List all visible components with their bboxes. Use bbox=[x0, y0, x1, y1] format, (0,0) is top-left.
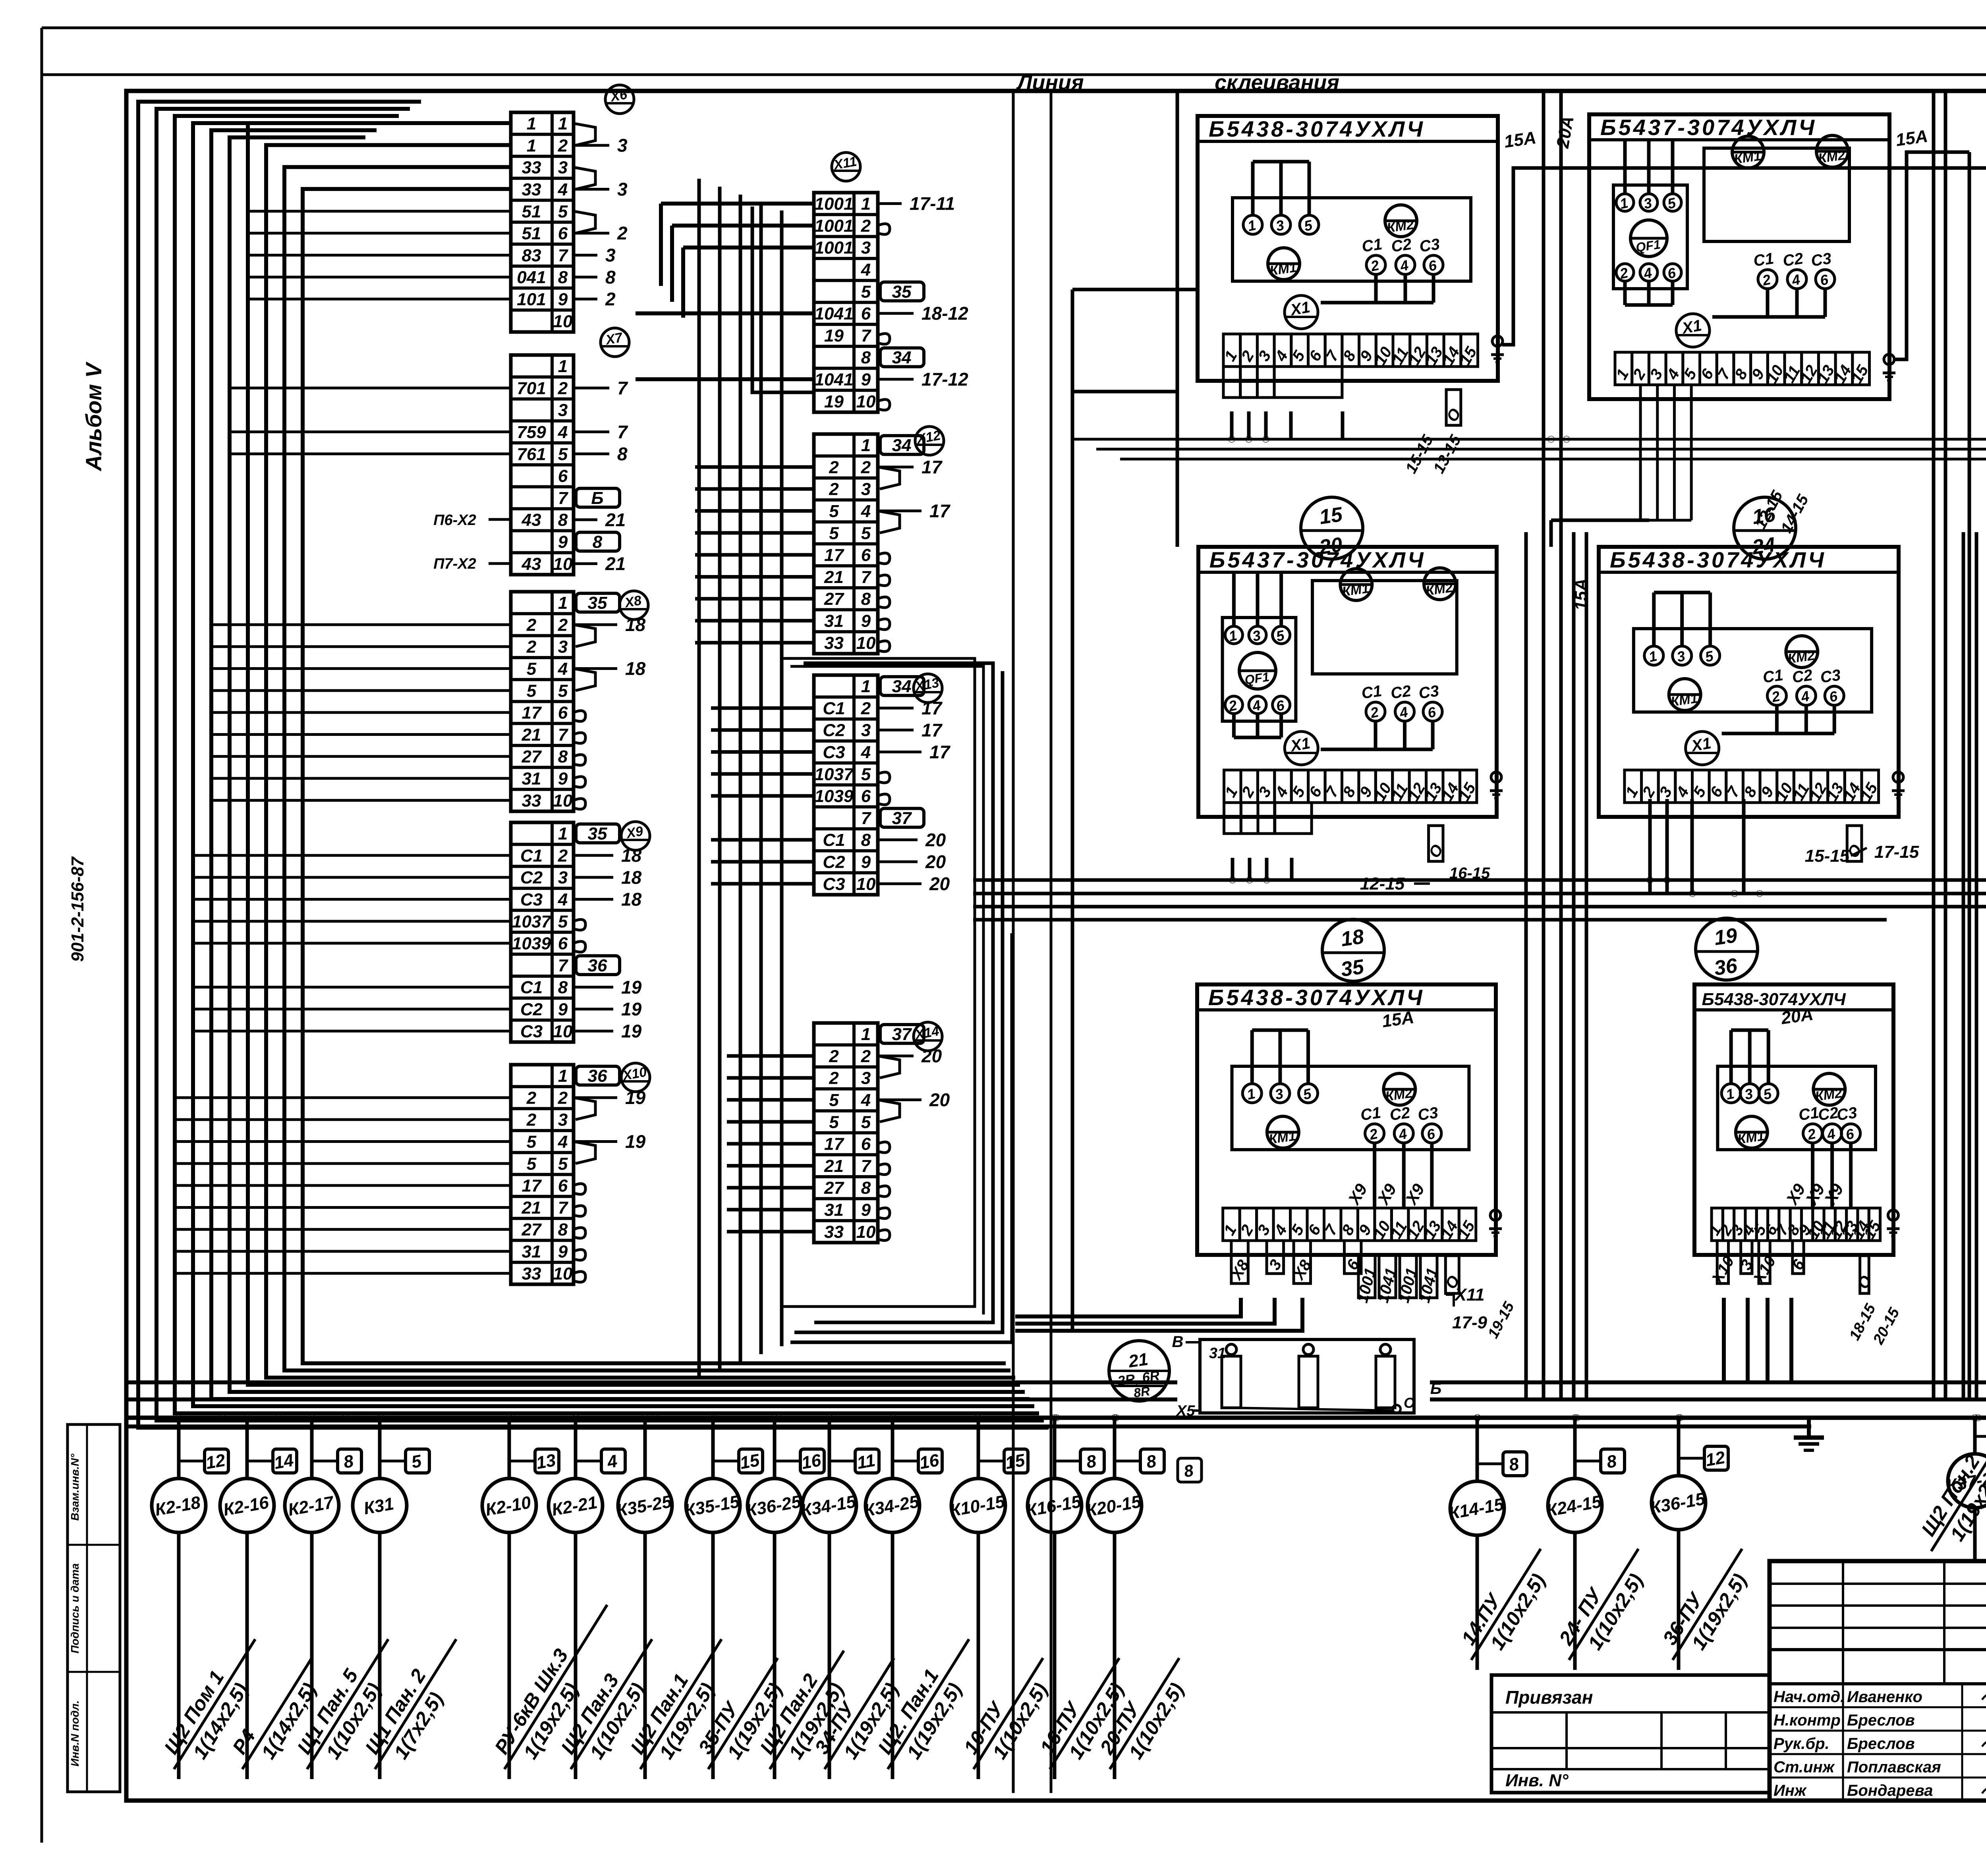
svg-text:5: 5 bbox=[829, 1112, 839, 1132]
wires into X7 bbox=[230, 386, 511, 389]
Х9 row 7 dest box 36 bbox=[576, 956, 620, 975]
Х6 bracket rows 5-6 bbox=[574, 211, 595, 233]
svg-text:3: 3 bbox=[558, 401, 568, 420]
svg-text:17-12: 17-12 bbox=[922, 369, 968, 390]
Х13 row 8 stub wire to 20 bbox=[878, 838, 918, 841]
svg-text:17: 17 bbox=[522, 1176, 542, 1196]
svg-text:5: 5 bbox=[558, 681, 568, 701]
svg-text:2: 2 bbox=[861, 699, 871, 718]
Х8 row 1 dest box 35 bbox=[576, 593, 620, 612]
cable line from bus to К2-21 bbox=[574, 1418, 578, 1478]
cable destination label Щ2 Пон.2 bbox=[1911, 1420, 1986, 1564]
cable circle К35-15 bbox=[686, 1478, 740, 1532]
svg-text:15: 15 bbox=[738, 1450, 761, 1473]
cable destination label Щ2 Пан.3 bbox=[550, 1626, 673, 1782]
svg-text:21: 21 bbox=[1127, 1349, 1149, 1371]
pin circle 5 bbox=[1759, 1084, 1778, 1103]
terminal block Х6 bbox=[511, 112, 574, 332]
svg-text:Р4: Р4 bbox=[228, 1725, 260, 1758]
svg-text:34: 34 bbox=[892, 677, 912, 696]
connector id circle Х6 bbox=[605, 85, 634, 114]
svg-text:С1: С1 bbox=[823, 699, 845, 718]
pin circle 2 bbox=[1616, 264, 1634, 281]
contactor coil КМ1 bbox=[1736, 1116, 1768, 1148]
connector id circle Х12 bbox=[915, 427, 944, 455]
svg-text:Нач.отд.: Нач.отд. bbox=[1773, 1688, 1845, 1706]
pin circle 4 bbox=[1394, 1124, 1413, 1143]
cable line from bus to К16-15 bbox=[1053, 1418, 1057, 1478]
contactor panel Б2 outline bbox=[1589, 114, 1889, 399]
pin circle 6 bbox=[1841, 1124, 1860, 1143]
route tag 16 of К36-25 bbox=[800, 1449, 824, 1473]
drop wires panel7 to left loop bus bbox=[1015, 1298, 1241, 1316]
svg-text:33: 33 bbox=[824, 633, 844, 653]
cable destination label 35-ПУ bbox=[688, 1645, 799, 1783]
terminal strip X1 of Б1 bbox=[1223, 334, 1240, 367]
vertical wire to box column 1 bbox=[1176, 91, 1179, 547]
svg-text:4: 4 bbox=[861, 743, 871, 762]
circuit breaker block of Б2 bbox=[1613, 185, 1687, 289]
Х12 row 10 hook terminal bbox=[878, 641, 890, 652]
terminal strip X1 of row3Б7 bbox=[1223, 1208, 1240, 1241]
svg-text:8: 8 bbox=[558, 747, 568, 766]
svg-text:Бреслов: Бреслов bbox=[1847, 1735, 1915, 1752]
svg-text:Х9: Х9 bbox=[1820, 1180, 1847, 1208]
svg-text:5: 5 bbox=[861, 764, 871, 784]
Х9 row 10 stub wire to 19 bbox=[574, 1030, 613, 1033]
cable line from bus to К37-25 bbox=[1973, 1418, 1977, 1454]
svg-text:1: 1 bbox=[861, 677, 871, 696]
svg-text:3: 3 bbox=[558, 868, 568, 888]
svg-text:4: 4 bbox=[605, 1451, 619, 1472]
contactor panel Б1 outline bbox=[1198, 116, 1498, 381]
cable circle К2-16 bbox=[220, 1478, 274, 1532]
svg-text:33: 33 bbox=[522, 791, 541, 811]
svg-text:4: 4 bbox=[558, 180, 568, 199]
svg-text:2: 2 bbox=[558, 615, 568, 635]
svg-text:4: 4 bbox=[558, 890, 568, 909]
route tag 8 of К20-15 bbox=[1140, 1449, 1164, 1473]
resistor R3 bbox=[1376, 1356, 1395, 1408]
svg-text:5: 5 bbox=[558, 1154, 568, 1173]
svg-text:7: 7 bbox=[617, 378, 628, 398]
Х14 row 10 hook terminal bbox=[878, 1230, 890, 1241]
drop wires panel4 to inter-row bus2 bbox=[1231, 858, 1234, 880]
svg-text:1001: 1001 bbox=[815, 216, 854, 235]
svg-text:Х9: Х9 bbox=[1344, 1180, 1371, 1208]
svg-text:Инж: Инж bbox=[1773, 1782, 1807, 1799]
Х11 row 5 dest box 35 bbox=[880, 282, 924, 301]
pin circle 5 bbox=[1273, 626, 1290, 644]
terminal strip X1 of Б4 bbox=[1224, 770, 1241, 803]
resistor assembly box bbox=[1200, 1339, 1414, 1413]
Х12 row 7 hook terminal bbox=[878, 575, 890, 586]
route tag 8 of К2-17 bbox=[338, 1449, 361, 1473]
svg-text:О: О bbox=[1854, 1273, 1876, 1292]
svg-text:1: 1 bbox=[527, 114, 536, 133]
contactor panel Б4 outline bbox=[1198, 547, 1497, 817]
svg-text:18-12: 18-12 bbox=[922, 303, 968, 324]
cable circle К36-15 bbox=[1652, 1476, 1706, 1530]
svg-text:С3: С3 bbox=[1835, 1104, 1858, 1124]
cable circle К31 bbox=[353, 1478, 407, 1532]
svg-text:1039: 1039 bbox=[815, 787, 854, 806]
Х10 row 6 hook terminal bbox=[574, 1184, 585, 1195]
wires into Х12 bbox=[695, 465, 814, 469]
svg-text:4: 4 bbox=[558, 423, 568, 442]
wires QF bottom pins down bbox=[1623, 281, 1627, 305]
svg-text:5: 5 bbox=[861, 1112, 871, 1132]
svg-text:5: 5 bbox=[410, 1451, 423, 1472]
svg-text:4: 4 bbox=[558, 1132, 568, 1152]
pin circle 1 bbox=[1721, 1084, 1741, 1103]
svg-text:10: 10 bbox=[553, 1022, 573, 1041]
terminal strip X1 of row3Б8 bbox=[1712, 1208, 1723, 1241]
pin circle 3 bbox=[1271, 1084, 1290, 1103]
svg-text:20: 20 bbox=[921, 1046, 942, 1066]
svg-text:761: 761 bbox=[517, 444, 546, 464]
svg-text:33: 33 bbox=[522, 158, 541, 178]
svg-text:5: 5 bbox=[527, 681, 537, 701]
svg-text:С1: С1 bbox=[520, 846, 543, 865]
svg-text:17-11: 17-11 bbox=[910, 193, 955, 214]
left-mid connection verticals bbox=[697, 179, 701, 1378]
svg-text:16: 16 bbox=[1751, 503, 1777, 529]
svg-text:35: 35 bbox=[892, 282, 912, 301]
svg-text:7: 7 bbox=[861, 1156, 872, 1176]
ground symbol on bus bbox=[1807, 1418, 1811, 1438]
svg-text:8: 8 bbox=[1145, 1451, 1158, 1472]
cable circle К24-15 bbox=[1548, 1478, 1602, 1532]
Х6 row 9 stub wire to 2 bbox=[574, 298, 597, 301]
wires from 2 4 6 with Х9 labels bbox=[1811, 1143, 1814, 1207]
svg-text:1041: 1041 bbox=[815, 370, 854, 390]
cable destination label Щ1 Пан. 2 bbox=[354, 1626, 477, 1782]
route tag 14 of К2-16 bbox=[273, 1449, 297, 1473]
Х8 bracket rows 4-5 bbox=[574, 669, 595, 691]
vertical bus between box columns 2-3 bbox=[1932, 91, 1936, 1399]
svg-text:Привязан: Привязан bbox=[1505, 1687, 1593, 1708]
svg-text:QF1: QF1 bbox=[1244, 670, 1270, 687]
device box of Б5 bbox=[1634, 629, 1872, 712]
connector id circle Х11 bbox=[832, 152, 860, 181]
group id circle 16/24 bbox=[1734, 497, 1796, 559]
svg-text:041: 041 bbox=[517, 268, 546, 287]
svg-text:8: 8 bbox=[617, 444, 628, 464]
Х14 row 6 hook terminal bbox=[878, 1142, 890, 1153]
Х11 row 8 dest box 34 bbox=[880, 348, 924, 367]
svg-text:36: 36 bbox=[588, 956, 607, 975]
cable circle К36-25 bbox=[748, 1478, 802, 1532]
svg-text:33: 33 bbox=[522, 1264, 541, 1283]
Х8 bracket rows 2-3 bbox=[574, 625, 595, 647]
svg-text:1: 1 bbox=[558, 1066, 568, 1086]
svg-text:Подпись и дата: Подпись и дата bbox=[69, 1563, 81, 1654]
terminal block Х12 bbox=[814, 434, 878, 654]
route tag 12 of К2-18 bbox=[205, 1449, 228, 1473]
svg-text:С2: С2 bbox=[1791, 666, 1814, 687]
cable line from bus to К2-10 bbox=[508, 1418, 511, 1478]
svg-text:К16-15: К16-15 bbox=[1024, 1492, 1082, 1521]
svg-text:К31: К31 bbox=[362, 1494, 395, 1518]
margin stamp block bbox=[68, 1424, 120, 1792]
svg-text:31: 31 bbox=[1209, 1345, 1226, 1362]
svg-text:2: 2 bbox=[526, 1088, 537, 1108]
svg-text:19: 19 bbox=[824, 326, 844, 345]
svg-text:37: 37 bbox=[892, 1025, 912, 1044]
Х9 row 6 hook terminal bbox=[574, 942, 585, 952]
contactor coil КМ1 bbox=[1340, 569, 1372, 600]
pin circle 3 bbox=[1249, 626, 1266, 644]
svg-text:8: 8 bbox=[593, 533, 603, 552]
Х10 row 7 hook terminal bbox=[574, 1206, 585, 1216]
svg-text:5: 5 bbox=[558, 444, 568, 464]
svg-text:43: 43 bbox=[522, 554, 541, 574]
cable destination label 24- ПУ bbox=[1548, 1536, 1660, 1673]
connector circle X1 of Б4 bbox=[1285, 731, 1318, 765]
device box of Б1 bbox=[1233, 198, 1471, 281]
cable destination label 14.ПУ bbox=[1451, 1536, 1562, 1673]
Х14 row 8 hook terminal bbox=[878, 1186, 890, 1197]
pin circle 5 bbox=[1701, 646, 1720, 665]
svg-text:2: 2 bbox=[829, 1046, 839, 1066]
svg-text:17: 17 bbox=[922, 457, 943, 477]
wires from pins 2 4 6 of Б5 bbox=[1775, 705, 1779, 733]
Х8 row 7 hook terminal bbox=[574, 733, 585, 743]
svg-text:5: 5 bbox=[829, 1090, 839, 1110]
circuit breaker QF1 bbox=[1239, 652, 1276, 689]
pin circle 3 bbox=[1271, 215, 1291, 234]
Х7 row 4 stub wire to 7 bbox=[574, 430, 609, 433]
below-strip boxes of panel 1 bbox=[1223, 367, 1240, 398]
cable destination label Р4 bbox=[222, 1645, 333, 1783]
Х11 row 6 stub wire to 18-12 bbox=[878, 312, 914, 315]
svg-text:10: 10 bbox=[553, 312, 573, 331]
svg-text:3: 3 bbox=[558, 637, 568, 657]
svg-text:О: О bbox=[1404, 1395, 1415, 1411]
svg-text:36: 36 bbox=[588, 1066, 607, 1086]
svg-text:9: 9 bbox=[558, 533, 568, 552]
Х9 row 5 hook terminal bbox=[574, 919, 585, 930]
title block revision grid bbox=[1770, 1583, 1986, 1585]
route tag 5 of К31 bbox=[406, 1449, 429, 1473]
cable line from bus to К36-15 bbox=[1677, 1418, 1681, 1476]
svg-text:1001: 1001 bbox=[815, 238, 854, 258]
Б1 title Б5438-3074УХЛЧ bbox=[1198, 140, 1498, 143]
svg-text:9: 9 bbox=[861, 1200, 871, 1220]
wires from 2 4 6 with Х9 labels bbox=[1373, 1143, 1376, 1207]
svg-text:К2-16: К2-16 bbox=[222, 1493, 270, 1520]
contactor coil КМ1 bbox=[1669, 679, 1701, 710]
cable line from bus to К10-15 bbox=[977, 1418, 980, 1478]
pin circle 3 bbox=[1673, 646, 1692, 665]
svg-text:С2: С2 bbox=[1390, 235, 1413, 256]
svg-text:1: 1 bbox=[527, 136, 536, 155]
svg-text:Х1: Х1 bbox=[1289, 298, 1312, 319]
resistor bottom bus bbox=[1231, 1408, 1394, 1411]
svg-text:8: 8 bbox=[558, 978, 568, 997]
ground terminal of row3Б7 bbox=[1490, 1210, 1501, 1220]
svg-text:21: 21 bbox=[824, 1156, 844, 1176]
svg-text:Рук.бр.: Рук.бр. bbox=[1773, 1735, 1830, 1752]
svg-text:20: 20 bbox=[925, 830, 946, 850]
wire id boxes 1001 1041 of panel 7 bbox=[1358, 1255, 1375, 1298]
contactor panel Б5 outline bbox=[1599, 547, 1899, 817]
Х13 row 4 stub wire to 17 bbox=[878, 751, 922, 753]
sheet top band line upper bbox=[42, 27, 1986, 29]
svg-text:51: 51 bbox=[522, 224, 541, 243]
Х7 row 7 dest box Б bbox=[576, 488, 620, 507]
svg-text:6: 6 bbox=[558, 467, 568, 486]
svg-text:2: 2 bbox=[829, 480, 839, 499]
svg-text:5: 5 bbox=[558, 202, 568, 221]
wires into Х13 bbox=[711, 706, 814, 710]
Х6 bracket rows 1-2 bbox=[574, 124, 595, 145]
main title block bbox=[1770, 1561, 1986, 1801]
inter-row bus row2-row3 bbox=[973, 878, 1986, 882]
cable circle К14-15 bbox=[1450, 1481, 1504, 1535]
Х11 row 10 hook terminal bbox=[878, 400, 890, 410]
svg-text:2: 2 bbox=[861, 457, 871, 477]
svg-text:К35-25: К35-25 bbox=[615, 1492, 673, 1521]
svg-text:21: 21 bbox=[605, 553, 626, 574]
Х11 row 1 stub wire to 17-11 bbox=[878, 202, 902, 205]
svg-text:27: 27 bbox=[522, 747, 542, 766]
Х14 row 1 dest box 37 bbox=[880, 1025, 924, 1043]
Х10 row 1 dest box 36 bbox=[576, 1066, 620, 1085]
svg-text:6: 6 bbox=[861, 546, 871, 565]
Х12 row 6 hook terminal bbox=[878, 553, 890, 564]
svg-text:5: 5 bbox=[527, 659, 537, 679]
svg-text:15А: 15А bbox=[1571, 579, 1591, 611]
circuit breaker block of Б4 bbox=[1223, 618, 1296, 721]
cable line from bus to К34-15 bbox=[828, 1418, 831, 1478]
svg-text:3: 3 bbox=[558, 1110, 568, 1130]
svg-text:16-15: 16-15 bbox=[1449, 865, 1490, 882]
svg-text:17-15: 17-15 bbox=[1874, 842, 1919, 862]
Х13 row 1 dest box 34 bbox=[880, 677, 924, 695]
svg-text:1: 1 bbox=[558, 593, 568, 613]
terminal block Х9 bbox=[511, 822, 574, 1042]
pin circle 6 bbox=[1273, 696, 1290, 714]
svg-text:4: 4 bbox=[861, 260, 871, 280]
Х9 row 3 stub wire to 18 bbox=[574, 876, 613, 879]
svg-text:35: 35 bbox=[588, 824, 607, 843]
cable line from bus to К35-25 bbox=[643, 1418, 647, 1478]
Х13 row 10 stub wire to 20 bbox=[878, 882, 922, 885]
Х11 row 9 stub wire to 17-12 bbox=[878, 378, 914, 381]
terminal block Х8 bbox=[511, 592, 574, 811]
svg-text:К20-15: К20-15 bbox=[1084, 1492, 1142, 1521]
svg-text:П7-Х2: П7-Х2 bbox=[433, 556, 476, 572]
svg-text:Б5438-3074УХЛЧ: Б5438-3074УХЛЧ bbox=[1209, 116, 1425, 141]
row3Б7 title Б5438-3074УХЛЧ bbox=[1197, 1008, 1496, 1011]
contactor panel row3Б7 outline bbox=[1197, 984, 1496, 1255]
svg-text:9: 9 bbox=[861, 612, 871, 631]
svg-text:27: 27 bbox=[824, 589, 844, 609]
id labels 15-15 13-15 of panel 1 bbox=[1446, 390, 1461, 425]
cable destination label 10-ПУ bbox=[953, 1645, 1064, 1783]
Х12 row 4 stub wire to 17 bbox=[878, 510, 922, 512]
svg-text:8: 8 bbox=[605, 267, 616, 288]
inter-row bus row1-row2 bbox=[1072, 438, 1986, 441]
pin circle 3 bbox=[1640, 194, 1658, 211]
connector id circle Х10 bbox=[621, 1063, 650, 1092]
pin circle 4 bbox=[1823, 1124, 1842, 1143]
svg-text:С3: С3 bbox=[520, 890, 543, 909]
svg-text:Х1: Х1 bbox=[1680, 317, 1703, 337]
svg-text:С3: С3 bbox=[1810, 250, 1833, 270]
Х11 row 7 hook terminal bbox=[878, 334, 890, 344]
svg-text:12: 12 bbox=[1704, 1448, 1727, 1470]
contactor coil КМ2 bbox=[1385, 205, 1417, 237]
svg-text:5: 5 bbox=[527, 1154, 537, 1173]
pin circle 6 bbox=[1825, 686, 1844, 705]
Б4 title Б5437-3074УХЛЧ bbox=[1198, 571, 1497, 574]
svg-text:7: 7 bbox=[861, 326, 872, 345]
wires QF top pins to supply bbox=[1623, 141, 1627, 194]
svg-text:10: 10 bbox=[856, 1222, 876, 1242]
cable line from bus to К34-25 bbox=[891, 1418, 894, 1478]
svg-text:19: 19 bbox=[824, 392, 844, 411]
svg-text:101: 101 bbox=[517, 290, 546, 309]
svg-text:8: 8 bbox=[861, 589, 871, 609]
svg-text:20: 20 bbox=[925, 851, 946, 872]
wires into X10 bbox=[175, 1096, 511, 1099]
svg-text:Х7: Х7 bbox=[604, 330, 624, 347]
svg-text:1: 1 bbox=[861, 1025, 871, 1044]
svg-text:Б5438-3074УХЛЧ: Б5438-3074УХЛЧ bbox=[1702, 990, 1846, 1009]
svg-text:17-9: 17-9 bbox=[1452, 1313, 1488, 1332]
route tag 13 of К2-10 bbox=[535, 1449, 559, 1473]
sheet outer left border bbox=[41, 28, 43, 1843]
Х12 row 1 dest box 34 bbox=[880, 436, 924, 454]
contactor coil КМ1 bbox=[1732, 136, 1764, 168]
svg-text:8: 8 bbox=[861, 830, 871, 850]
svg-text:17: 17 bbox=[929, 501, 951, 521]
Х7 row 8 stub wire to 21 bbox=[574, 518, 597, 521]
device box of row3Б8 bbox=[1717, 1066, 1876, 1150]
Х14 row 9 hook terminal bbox=[878, 1208, 890, 1219]
pin circle 2 bbox=[1767, 686, 1786, 705]
svg-text:2: 2 bbox=[526, 615, 537, 635]
device box of Б4 bbox=[1312, 581, 1457, 674]
svg-text:16: 16 bbox=[800, 1450, 823, 1473]
margin stamp divider vertical bbox=[86, 1424, 88, 1792]
cable circle К16-15 bbox=[1028, 1478, 1082, 1532]
svg-text:С1: С1 bbox=[1752, 250, 1775, 270]
wires from pins 2 4 6 of Б4 bbox=[1374, 721, 1377, 749]
svg-text:2: 2 bbox=[558, 136, 568, 155]
svg-text:8: 8 bbox=[1085, 1451, 1098, 1472]
svg-text:Инв. N°: Инв. N° bbox=[1505, 1771, 1569, 1790]
Х7 row 10 stub wire to 21 bbox=[574, 562, 597, 565]
cable destination label 20-ПУ bbox=[1089, 1645, 1200, 1783]
Х13 row 9 stub wire to 20 bbox=[878, 861, 918, 863]
cable destination label Щ2 Пом 1 bbox=[153, 1626, 276, 1782]
svg-text:С3: С3 bbox=[520, 1022, 543, 1041]
device box of Б2 bbox=[1704, 148, 1849, 241]
svg-text:3: 3 bbox=[861, 721, 871, 740]
svg-text:6: 6 bbox=[558, 224, 568, 243]
cable destination label Щ2 Пан.1 bbox=[620, 1626, 743, 1782]
svg-text:18: 18 bbox=[625, 658, 646, 679]
svg-text:К34-25: К34-25 bbox=[862, 1492, 920, 1521]
svg-text:QF1: QF1 bbox=[1635, 237, 1661, 255]
Х9 row 1 dest box 35 bbox=[576, 824, 620, 843]
svg-text:12-15: 12-15 bbox=[1360, 874, 1405, 894]
Х8 row 6 hook terminal bbox=[574, 711, 585, 722]
